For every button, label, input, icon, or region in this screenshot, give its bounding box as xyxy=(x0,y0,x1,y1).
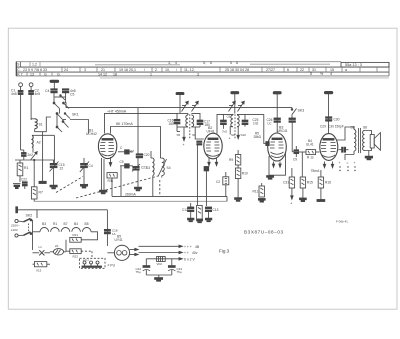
dashed mechanical link xyxy=(56,176,158,198)
wire ground rail left xyxy=(15,159,54,161)
svg-text:R10: R10 xyxy=(242,172,248,176)
svg-text:C4: C4 xyxy=(89,164,93,168)
capacitor C36 left xyxy=(182,203,194,218)
antenna terminal A2 xyxy=(29,83,33,90)
svg-text:B4: B4 xyxy=(74,222,78,226)
wire xyxy=(137,158,139,166)
svg-text:75µ: 75µ xyxy=(177,270,182,274)
wire x206 down xyxy=(205,168,207,206)
capacitor to ground xyxy=(39,181,46,183)
resistor R8 xyxy=(107,173,117,183)
svg-text:≠ PU: ≠ PU xyxy=(108,264,116,268)
svg-text:SK1: SK1 xyxy=(72,113,79,117)
tube B4 xyxy=(320,134,338,161)
pickup connector PU dashed box xyxy=(80,258,116,268)
band switch SK1 xyxy=(53,95,79,132)
svg-text:75mA: 75mA xyxy=(311,169,321,173)
anode cap bar B3 xyxy=(273,92,281,133)
svg-text:C9: C9 xyxy=(293,158,297,162)
wire junction xyxy=(34,159,35,160)
cathode arrow B1 xyxy=(109,157,112,173)
tube B3 lower rectangle xyxy=(269,152,286,175)
tube B2 xyxy=(204,126,222,159)
ground under speaker xyxy=(365,151,372,160)
dashed gang link SK2 xyxy=(28,224,30,232)
svg-text:R 7: R 7 xyxy=(17,72,23,76)
svg-text:22: 22 xyxy=(300,68,304,72)
capacitor C20 xyxy=(130,150,150,158)
trimmer core arrow xyxy=(31,148,38,160)
svg-text:C29: C29 xyxy=(320,125,326,129)
heater coil B5 xyxy=(82,228,91,232)
svg-text:Fig.3: Fig.3 xyxy=(219,249,230,254)
svg-text:14 12: 14 12 xyxy=(98,72,107,76)
svg-text:+: + xyxy=(339,161,341,165)
svg-text:S10: S10 xyxy=(241,133,247,137)
svg-text:55a 13 : 3: 55a 13 : 3 xyxy=(345,63,362,67)
ground bottom xyxy=(146,275,172,281)
electrolytic C39 xyxy=(168,259,182,275)
svg-text:6K 170mA: 6K 170mA xyxy=(116,122,133,126)
output transformer S8 secondary xyxy=(363,126,368,151)
svg-text:C31: C31 xyxy=(283,181,289,185)
capacitor C35 pair xyxy=(197,141,202,145)
svg-text:C4: C4 xyxy=(45,89,49,93)
svg-text:=: = xyxy=(347,161,349,165)
resistor R7 xyxy=(31,182,43,201)
antenna terminal A1 xyxy=(19,83,23,90)
svg-text:10,: 10, xyxy=(165,68,170,72)
svg-text:27/27: 27/27 xyxy=(266,68,275,72)
svg-text:C7: C7 xyxy=(130,150,134,154)
wire xyxy=(152,178,154,197)
voltage test dots B4 xyxy=(339,161,356,171)
svg-text:C20: C20 xyxy=(144,153,150,157)
svg-text:R15: R15 xyxy=(307,181,313,185)
svg-text:\: \ xyxy=(176,68,177,72)
rectifier tube B5 xyxy=(107,245,129,260)
tube B1 xyxy=(86,129,117,159)
svg-text:R7: R7 xyxy=(39,191,43,195)
svg-text:24: 24 xyxy=(64,68,68,72)
anode cap bar T2 xyxy=(231,92,239,114)
svg-text:2n2: 2n2 xyxy=(28,153,34,157)
trimmer arrow C40 xyxy=(182,101,189,111)
capacitor C1 xyxy=(11,89,23,96)
svg-text:22: 22 xyxy=(60,166,64,170)
capacitor C16 xyxy=(168,113,181,131)
ground xyxy=(317,188,325,202)
mains terminal 110V xyxy=(11,228,18,237)
resistor R9 xyxy=(229,150,241,165)
fuse xyxy=(50,244,66,255)
ground xyxy=(13,183,21,188)
svg-text:S5: S5 xyxy=(177,133,181,137)
svg-text:UL41: UL41 xyxy=(306,143,314,147)
trimmer arrow C43 xyxy=(238,101,245,111)
rectifier output arrows xyxy=(130,248,139,255)
svg-text:1,2: 1,2 xyxy=(32,63,37,67)
svg-text:75µ: 75µ xyxy=(136,270,141,274)
lamp symbol xyxy=(33,245,51,255)
heater coil B1 xyxy=(51,228,60,232)
svg-text:+ +: + + xyxy=(184,251,189,255)
svg-text:S4: S4 xyxy=(167,166,171,170)
wire S1 bottom loop xyxy=(35,117,51,132)
svg-text:S: S xyxy=(17,63,20,67)
svg-text:4: 4 xyxy=(175,61,177,65)
trimmer arrow C41 xyxy=(192,101,199,111)
svg-text:a b c: a b c xyxy=(83,258,90,262)
svg-text:220V~: 220V~ xyxy=(11,224,20,228)
anode cap bar xyxy=(50,80,59,88)
dc rail 2 xyxy=(139,251,198,255)
svg-text:C13: C13 xyxy=(213,208,219,212)
svg-text:1n2: 1n2 xyxy=(253,121,259,125)
svg-text:260mA: 260mA xyxy=(125,192,136,196)
svg-text:F 06b 41: F 06b 41 xyxy=(336,220,348,224)
coil labels T1 xyxy=(177,133,197,137)
capacitor C25 xyxy=(242,114,258,126)
trimmer capacitor C4 xyxy=(45,89,57,97)
wire xyxy=(24,176,26,182)
resistor R14 xyxy=(253,183,265,197)
resistor R13 xyxy=(300,152,313,188)
labels above B4 xyxy=(306,125,344,147)
svg-text:+ + +: + + + xyxy=(184,245,192,249)
switch contact SK2a xyxy=(18,218,32,221)
svg-text:28kΩ: 28kΩ xyxy=(254,135,262,139)
svg-text:C9: C9 xyxy=(120,160,124,164)
coupling capacitor C32 xyxy=(293,146,299,162)
svg-text:5: 5 xyxy=(230,61,232,65)
wire xyxy=(30,95,32,121)
svg-text:R16: R16 xyxy=(325,181,331,185)
capacitor C33 xyxy=(339,147,349,152)
dc rail 1 xyxy=(139,245,200,249)
svg-text:3: 3 xyxy=(84,68,86,72)
anode cap bar B4 xyxy=(324,91,332,133)
variable capacitor C23 xyxy=(80,158,93,184)
cathode arrows B2 xyxy=(208,158,218,166)
svg-text:31: 31 xyxy=(312,68,316,72)
wire x197 down to cluster xyxy=(196,145,198,205)
svg-text:+HT 450mA: +HT 450mA xyxy=(107,109,127,113)
svg-text:a: a xyxy=(345,68,347,72)
tube B3 xyxy=(268,126,288,162)
svg-text:3,: 3, xyxy=(168,61,171,65)
svg-text:V13: V13 xyxy=(36,269,42,273)
svg-text:+: + xyxy=(354,161,356,165)
heater chain wire xyxy=(33,222,89,232)
svg-text:B5: B5 xyxy=(85,222,89,226)
switch SK3 xyxy=(291,108,304,119)
resistor R1 xyxy=(17,163,28,182)
svg-text:1A: 1A xyxy=(112,232,116,236)
svg-text:R11: R11 xyxy=(253,190,259,194)
svg-text:6: 6 xyxy=(210,61,212,65)
svg-text:110V: 110V xyxy=(11,228,18,232)
wire +HT rail xyxy=(105,109,178,133)
variable capacitor C15 xyxy=(50,160,65,185)
svg-text:R21: R21 xyxy=(73,233,79,237)
svg-text:40v: 40v xyxy=(192,251,198,255)
grounds under cluster xyxy=(188,218,212,223)
resistor R17 xyxy=(318,170,331,188)
svg-text:UY41: UY41 xyxy=(115,238,123,242)
svg-text:R9: R9 xyxy=(229,158,233,162)
capacitor C13 xyxy=(104,229,117,236)
capacitor C3 xyxy=(22,150,34,160)
cathode arrows B3 xyxy=(272,162,281,168)
wire S2 top junction xyxy=(32,134,54,136)
anode cap bar T1 xyxy=(176,92,184,113)
dc rail 3 xyxy=(146,258,195,262)
svg-text:C30: C30 xyxy=(334,118,340,122)
trimmer arrow C42 xyxy=(229,101,236,111)
wire xyxy=(137,171,139,188)
capacitor C14 xyxy=(118,146,133,154)
svg-text:UF41: UF41 xyxy=(207,130,215,134)
wire R1 top xyxy=(19,160,21,163)
wire B1 pins down xyxy=(102,158,105,190)
svg-text:4n5: 4n5 xyxy=(35,92,41,96)
heater coil B3 xyxy=(40,228,49,232)
svg-text:S9: S9 xyxy=(231,133,235,137)
svg-text:LC: LC xyxy=(268,121,273,125)
dashed link to PU xyxy=(81,251,92,258)
capacitor C18 xyxy=(221,114,231,133)
cathode arrows B4 xyxy=(323,162,333,168)
capacitor C34 small xyxy=(204,167,209,171)
svg-text:C12: C12 xyxy=(182,208,188,212)
svg-text:6: 6 xyxy=(287,68,289,72)
svg-text:A2: A2 xyxy=(37,141,41,145)
svg-text:3: 3 xyxy=(197,72,199,76)
ground xyxy=(135,187,142,191)
ground under B1 xyxy=(100,190,107,194)
svg-text:+: + xyxy=(182,142,185,147)
speaker xyxy=(365,131,381,151)
svg-text:B3: B3 xyxy=(42,222,46,226)
svg-text:C: C xyxy=(120,146,123,150)
wire xyxy=(20,95,22,151)
wire S2 to R7 xyxy=(33,160,35,187)
electrolytic C38 xyxy=(136,259,151,275)
ground bus gray xyxy=(34,196,227,201)
svg-text:8: 8 xyxy=(236,61,238,65)
ground xyxy=(300,188,307,202)
coil S1 xyxy=(31,119,43,129)
wire antenna down xyxy=(20,95,22,151)
parts table xyxy=(16,61,389,78)
svg-text:L1: L1 xyxy=(39,245,43,249)
capacitor C24 xyxy=(216,172,229,196)
svg-text:S1: S1 xyxy=(39,123,43,127)
resistor R10 xyxy=(235,165,248,179)
ground under R10 xyxy=(235,179,242,202)
ground under B3 loop xyxy=(267,176,274,180)
svg-text:C2: C2 xyxy=(216,180,220,184)
svg-text:G: G xyxy=(44,72,47,76)
svg-text:7n5: 7n5 xyxy=(222,130,227,134)
coil labels T2 xyxy=(231,133,246,137)
wire T2 to B3 grid xyxy=(254,114,270,145)
svg-text:4n5: 4n5 xyxy=(11,92,17,96)
wire transformer bottom xyxy=(345,155,354,161)
resistor R19 xyxy=(70,233,81,242)
ground xyxy=(80,184,87,188)
svg-text:C5: C5 xyxy=(70,92,74,96)
svg-text:+: + xyxy=(290,201,293,206)
wire B2 screen down xyxy=(208,168,210,196)
heater coil B2 xyxy=(61,228,70,232)
mains terminal 220V xyxy=(11,219,20,227)
svg-text:5,: 5, xyxy=(203,61,206,65)
svg-text:VD2: VD2 xyxy=(157,262,163,266)
coil S2 xyxy=(32,135,41,147)
main HT bus xyxy=(112,178,227,196)
svg-text:G: G xyxy=(57,72,60,76)
IF transformer T2 xyxy=(217,114,264,140)
wire screen rail xyxy=(111,122,162,158)
svg-text:UCH42: UCH42 xyxy=(86,132,97,136)
selenium block VD xyxy=(157,257,166,267)
capacitor C22 xyxy=(21,178,27,190)
svg-text:2: 2 xyxy=(155,68,157,72)
svg-text:13: 13 xyxy=(30,72,34,76)
capacitor C19 xyxy=(120,160,133,196)
resistor R23 box xyxy=(33,255,51,273)
svg-text:R/B: R/B xyxy=(108,179,114,183)
resistor R16 horizontal xyxy=(299,150,320,160)
capacitor C17 xyxy=(195,120,210,128)
capacitor C26 on B3 lead xyxy=(267,118,281,125)
svg-text:4B: 4B xyxy=(195,245,200,249)
arrow below R12 xyxy=(290,188,293,206)
svg-text:C22: C22 xyxy=(21,178,27,182)
wire osc frame xyxy=(42,132,44,181)
output transformer S7 xyxy=(351,126,361,155)
svg-text:UBC41: UBC41 xyxy=(277,129,288,133)
resistor R12 xyxy=(283,168,295,188)
svg-text:11, 12,: 11, 12, xyxy=(184,68,195,72)
wire heater to rectifier xyxy=(82,232,98,240)
ground xyxy=(258,199,265,203)
heater coil B4 xyxy=(72,228,81,232)
svg-text:5: 5 xyxy=(310,72,312,76)
svg-text:S8: S8 xyxy=(363,126,367,130)
arrow down AVC T1 xyxy=(182,127,185,147)
svg-text:25 18 30 04 28: 25 18 30 04 28 xyxy=(225,68,249,72)
IF transformer T1 xyxy=(177,113,204,139)
wire SK1 to B1 grid xyxy=(70,120,88,134)
resistor R20 xyxy=(66,240,81,259)
svg-text:R1: R1 xyxy=(53,222,57,226)
svg-text:R 1s: R 1s xyxy=(307,156,314,160)
capacitor C30 on B4 lead xyxy=(326,117,340,122)
svg-text:1: 1 xyxy=(150,72,152,76)
wire C15 stem xyxy=(53,135,55,163)
svg-text:18: 18 xyxy=(113,72,117,76)
ground xyxy=(50,185,57,189)
svg-text:Z1: Z1 xyxy=(55,244,59,248)
wire HT top rail to SK3 xyxy=(66,102,292,154)
cathode resistor R18 xyxy=(197,205,203,223)
wire dashed gang link xyxy=(159,180,161,196)
capacitor C27 on SK3 lead xyxy=(289,118,295,152)
trimmer capacitor C5 xyxy=(62,89,75,97)
trimmer C21 xyxy=(132,164,147,172)
svg-text:180: 180 xyxy=(169,122,175,126)
oscillator coil S3 xyxy=(146,151,154,178)
svg-text:\: \ xyxy=(144,68,145,72)
svg-text:C30 150pF: C30 150pF xyxy=(328,125,344,129)
junction bar mains xyxy=(16,207,18,213)
svg-text:C6: C6 xyxy=(227,115,231,119)
svg-text:B7: B7 xyxy=(64,222,68,226)
svg-text:SK2: SK2 xyxy=(26,214,33,218)
svg-text:4: 4 xyxy=(330,72,332,76)
oscillator coil S4 xyxy=(158,158,171,178)
svg-text:S6: S6 xyxy=(192,133,196,137)
svg-text:B3X87U–08–03: B3X87U–08–03 xyxy=(244,230,284,235)
svg-text:6 n 2 V: 6 n 2 V xyxy=(184,258,195,262)
svg-text:R1: R1 xyxy=(24,166,28,170)
capacitor C37 right xyxy=(205,207,218,218)
svg-text:R22: R22 xyxy=(73,255,79,259)
switch contact SK2b xyxy=(18,220,32,250)
svg-text:SK3: SK3 xyxy=(298,109,305,113)
capacitor C2 xyxy=(29,89,41,96)
wire mains top xyxy=(18,210,108,246)
svg-text:19 16 20,1: 19 16 20,1 xyxy=(119,68,136,72)
svg-text:S3: S3 xyxy=(146,166,150,170)
rectifier label xyxy=(115,235,123,243)
wire B4 anode to transformer xyxy=(335,130,354,137)
